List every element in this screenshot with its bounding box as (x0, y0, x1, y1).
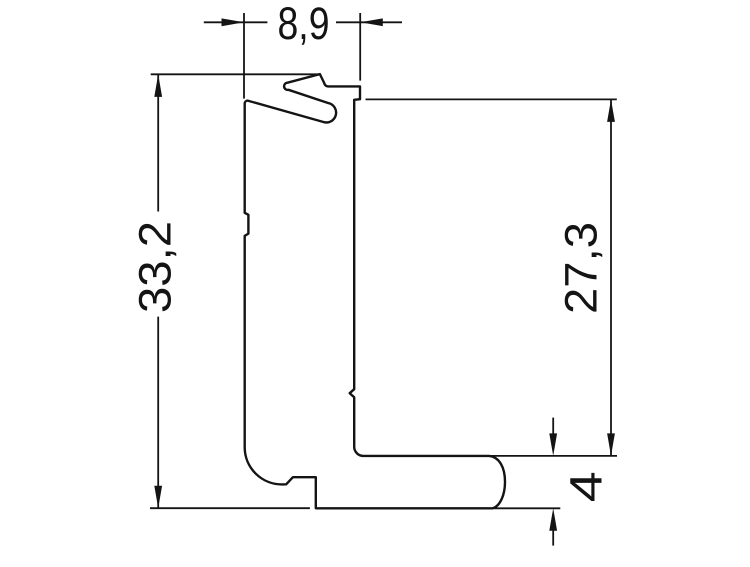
dim line upper tail (552, 418, 554, 435)
ext line right (359, 13, 361, 81)
ext bottom (150, 507, 310, 509)
arrow up (607, 99, 615, 122)
ext shared top (27,3 bottom / 4 top) (489, 455, 617, 457)
arrow down (above) (549, 433, 557, 456)
svg-text:4: 4 (561, 471, 612, 502)
dimension 33,2 (150, 74, 320, 508)
dimension 4 (489, 418, 617, 546)
dim line right (336, 21, 402, 23)
svg-text:8,9: 8,9 (278, 0, 330, 49)
arrow down (154, 486, 162, 509)
ext bottom right (494, 507, 560, 509)
arrow left (points right) (222, 18, 245, 26)
ext top (366, 98, 617, 100)
arrow down (607, 433, 615, 456)
ext top (151, 73, 320, 75)
svg-text:33,2: 33,2 (129, 221, 180, 313)
profile outline (245, 74, 505, 508)
arrow up (below) (549, 508, 557, 531)
arrow up (154, 74, 162, 97)
svg-text:27,3: 27,3 (556, 222, 607, 314)
dim line upper (157, 75, 159, 212)
dimension 8,9 (204, 13, 402, 99)
ext line left (243, 13, 245, 99)
dim line (610, 100, 612, 455)
dimension 27,3 (366, 99, 617, 455)
dim line lower tail (552, 530, 554, 546)
arrow right (points left) (360, 18, 383, 26)
dim line left (204, 21, 268, 23)
dim line lower (157, 317, 159, 508)
